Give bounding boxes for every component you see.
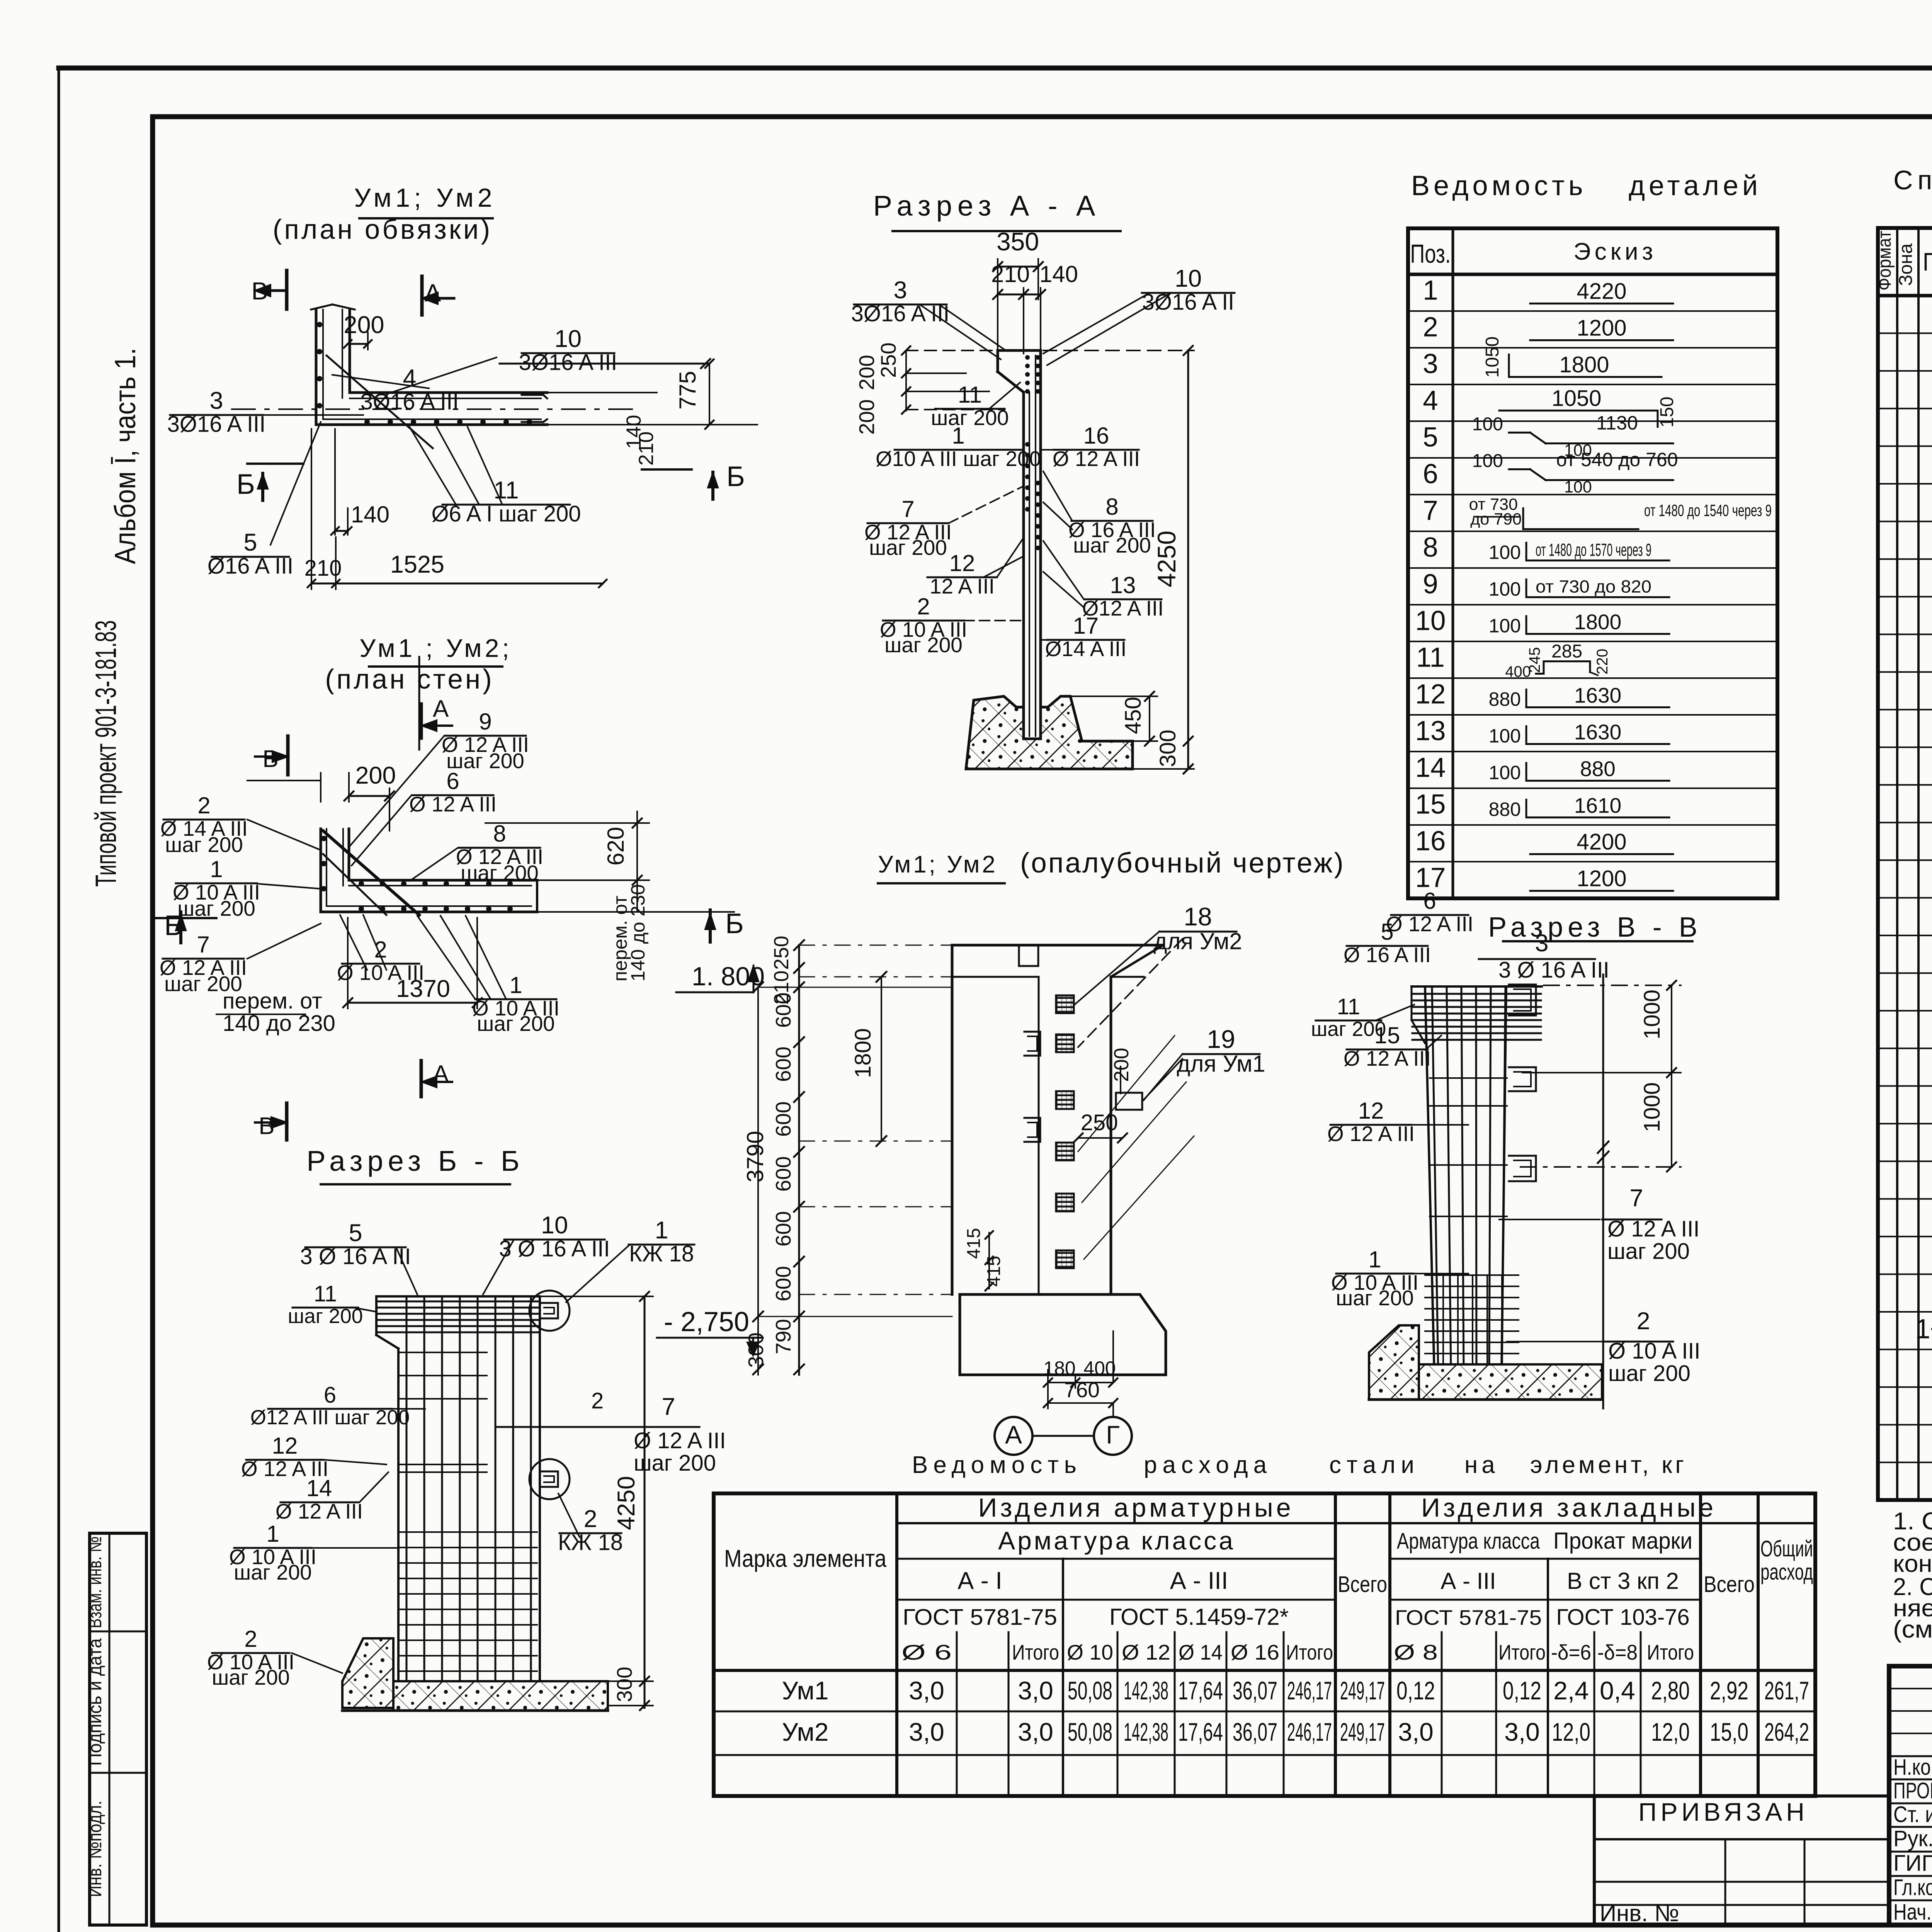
svg-text:12,0: 12,0 xyxy=(1552,1718,1590,1746)
svg-text:Б: Б xyxy=(725,908,744,939)
svg-text:142,38: 142,38 xyxy=(1124,1676,1168,1705)
svg-text:220: 220 xyxy=(1594,649,1611,675)
svg-text:285: 285 xyxy=(1551,641,1582,662)
svg-text:Ø14 A III: Ø14 A III xyxy=(1045,637,1127,661)
svg-text:3 Ø 16 A III: 3 Ø 16 A III xyxy=(499,1236,610,1262)
svg-text:Подпись и дата: Подпись и дата xyxy=(85,1638,105,1766)
svg-text:50,08: 50,08 xyxy=(1068,1718,1112,1746)
svg-text:0,12: 0,12 xyxy=(1396,1676,1435,1705)
svg-text:Ø 14: Ø 14 xyxy=(1179,1640,1223,1664)
svg-text:200: 200 xyxy=(855,399,879,435)
svg-text:775: 775 xyxy=(675,371,701,410)
svg-text:2,4: 2,4 xyxy=(1553,1676,1589,1705)
svg-text:Ø 6: Ø 6 xyxy=(901,1640,952,1664)
svg-text:шаг 200: шаг 200 xyxy=(634,1451,716,1476)
svg-text:8: 8 xyxy=(493,821,506,847)
svg-text:расход: расход xyxy=(1760,1560,1813,1585)
svg-text:3: 3 xyxy=(1535,930,1548,957)
svg-text:142,38: 142,38 xyxy=(1124,1718,1168,1746)
svg-text:Инв. №: Инв. № xyxy=(1600,1900,1679,1926)
svg-text:210: 210 xyxy=(991,261,1030,287)
svg-text:0,12: 0,12 xyxy=(1503,1676,1541,1705)
svg-text:249,17: 249,17 xyxy=(1340,1676,1385,1705)
svg-text:17,64: 17,64 xyxy=(1178,1718,1223,1746)
svg-text:Ум1 ; Ум2;: Ум1 ; Ум2; xyxy=(359,634,512,662)
svg-text:100: 100 xyxy=(1489,615,1521,637)
svg-text:5: 5 xyxy=(1381,919,1393,945)
svg-text:150: 150 xyxy=(1657,396,1677,427)
svg-text:от 730 до 820: от 730 до 820 xyxy=(1536,577,1651,597)
svg-text:3: 3 xyxy=(209,387,223,414)
svg-text:Ø 8: Ø 8 xyxy=(1394,1640,1438,1664)
svg-text:1630: 1630 xyxy=(1574,720,1621,744)
svg-text:Ø 12 A III: Ø 12 A III xyxy=(1344,1046,1431,1070)
svg-text:880: 880 xyxy=(1580,757,1616,781)
svg-text:2: 2 xyxy=(244,1626,257,1652)
svg-text:Ø 10: Ø 10 xyxy=(1067,1640,1113,1664)
svg-text:14: 14 xyxy=(306,1475,332,1501)
svg-text:36,07: 36,07 xyxy=(1233,1718,1277,1746)
svg-text:Б: Б xyxy=(726,461,745,492)
svg-text:1: 1 xyxy=(509,972,522,998)
svg-text:Ø 10 A III: Ø 10 A III xyxy=(1608,1338,1701,1364)
svg-text:3,0: 3,0 xyxy=(1018,1676,1053,1705)
svg-text:790: 790 xyxy=(771,1319,795,1354)
svg-text:Общий: Общий xyxy=(1760,1536,1813,1561)
svg-text:Арматура класса: Арматура класса xyxy=(998,1526,1235,1555)
svg-text:3: 3 xyxy=(893,277,907,304)
svg-text:600: 600 xyxy=(771,1046,795,1082)
svg-text:Ø 12: Ø 12 xyxy=(1122,1640,1170,1664)
svg-text:415: 415 xyxy=(964,1228,984,1259)
svg-text:расхода: расхода xyxy=(1144,1452,1272,1478)
svg-text:200: 200 xyxy=(855,355,879,390)
svg-text:до 790: до 790 xyxy=(1470,510,1522,529)
svg-text:350: 350 xyxy=(997,227,1039,256)
svg-text:шаг 200: шаг 200 xyxy=(931,406,1009,430)
svg-text:4250: 4250 xyxy=(613,1476,640,1530)
svg-text:17: 17 xyxy=(1073,613,1099,639)
svg-text:2: 2 xyxy=(591,1388,604,1413)
svg-text:Спецификация: Спецификация xyxy=(1893,165,1932,195)
svg-text:2,92: 2,92 xyxy=(1710,1676,1748,1705)
svg-text:Итого: Итого xyxy=(1286,1640,1333,1664)
svg-text:15,0: 15,0 xyxy=(1710,1718,1748,1746)
svg-text:Разрез А - А: Разрез А - А xyxy=(873,190,1101,222)
svg-text:3 Ø 16 A III: 3 Ø 16 A III xyxy=(300,1244,411,1269)
svg-text:-δ=6: -δ=6 xyxy=(1551,1640,1591,1664)
svg-text:6: 6 xyxy=(324,1383,336,1408)
svg-text:7: 7 xyxy=(901,496,914,522)
svg-text:Ø 12 A III: Ø 12 A III xyxy=(409,792,497,816)
svg-text:Ум1: Ум1 xyxy=(782,1676,828,1705)
svg-text:Типовой проект 901-3-181.83: Типовой проект 901-3-181.83 xyxy=(90,620,122,887)
svg-text:1: 1 xyxy=(1368,1247,1381,1272)
svg-text:А - III: А - III xyxy=(1440,1568,1496,1594)
svg-text:11: 11 xyxy=(493,477,519,504)
svg-text:2: 2 xyxy=(197,793,210,818)
svg-text:10: 10 xyxy=(541,1212,568,1239)
svg-text:Поз.: Поз. xyxy=(1410,239,1451,269)
svg-text:249,17: 249,17 xyxy=(1340,1718,1385,1746)
svg-text:от 1480 до 1540 через 9: от 1480 до 1540 через 9 xyxy=(1644,502,1772,520)
svg-text:13: 13 xyxy=(1110,572,1136,598)
svg-text:100: 100 xyxy=(1472,414,1503,435)
svg-text:3Ø16 A III: 3Ø16 A III xyxy=(519,350,617,375)
svg-text:1050: 1050 xyxy=(1551,386,1601,411)
svg-text:Прокат марки: Прокат марки xyxy=(1553,1528,1692,1554)
svg-text:от 1480 до 1570 через 9: от 1480 до 1570 через 9 xyxy=(1536,540,1651,560)
svg-text:261,7: 261,7 xyxy=(1764,1676,1809,1705)
svg-text:12,0: 12,0 xyxy=(1651,1718,1690,1746)
svg-text:140: 140 xyxy=(1039,261,1078,287)
svg-text:7: 7 xyxy=(1423,496,1438,526)
svg-text:4200: 4200 xyxy=(1577,830,1626,855)
svg-text:шаг 200: шаг 200 xyxy=(1336,1286,1414,1310)
svg-text:15: 15 xyxy=(1415,789,1446,820)
svg-text:250: 250 xyxy=(876,342,900,378)
svg-text:4220: 4220 xyxy=(1577,279,1626,304)
svg-text:на: на xyxy=(1464,1452,1499,1478)
svg-text:600: 600 xyxy=(771,1101,795,1137)
svg-text:6: 6 xyxy=(446,768,459,794)
svg-text:1: 1 xyxy=(1423,276,1438,306)
svg-text:3Ø16 A III: 3Ø16 A III xyxy=(361,389,459,415)
svg-text:Марка элемента: Марка элемента xyxy=(724,1545,887,1572)
svg-text:Нач.отд.: Нач.отд. xyxy=(1893,1900,1932,1925)
svg-text:246,17: 246,17 xyxy=(1287,1676,1332,1705)
svg-text:3,0: 3,0 xyxy=(909,1718,944,1746)
svg-text:11: 11 xyxy=(314,1281,337,1306)
svg-text:Ø 16: Ø 16 xyxy=(1231,1640,1279,1664)
svg-text:Формат: Формат xyxy=(1874,231,1895,291)
svg-text:14: 14 xyxy=(1415,753,1446,783)
svg-text:400: 400 xyxy=(1083,1357,1116,1379)
svg-text:от 540 до 760: от 540 до 760 xyxy=(1556,449,1678,471)
svg-text:1610: 1610 xyxy=(1574,794,1621,818)
svg-text:шаг 200: шаг 200 xyxy=(212,1665,290,1689)
svg-text:Инв. №подл.: Инв. №подл. xyxy=(85,1801,105,1897)
svg-text:16: 16 xyxy=(1083,423,1109,449)
svg-text:шаг 200: шаг 200 xyxy=(884,633,963,657)
svg-text:3,0: 3,0 xyxy=(1018,1718,1053,1746)
svg-text:11: 11 xyxy=(1337,994,1360,1019)
svg-text:620: 620 xyxy=(603,827,629,866)
svg-text:1: 1 xyxy=(210,856,223,882)
svg-text:Ст. инж.: Ст. инж. xyxy=(1893,1802,1932,1827)
svg-text:(план обвязки): (план обвязки) xyxy=(273,214,492,245)
svg-text:шаг 200: шаг 200 xyxy=(1608,1361,1690,1386)
svg-text:2: 2 xyxy=(917,594,930,619)
svg-text:3: 3 xyxy=(1423,349,1438,379)
svg-text:8: 8 xyxy=(1423,532,1438,563)
svg-text:Ø6 A I шаг 200: Ø6 A I шаг 200 xyxy=(432,502,581,527)
svg-text:(опалубочный чертеж): (опалубочный чертеж) xyxy=(1020,847,1345,879)
svg-text:Всего: Всего xyxy=(1704,1572,1755,1597)
svg-text:ГОСТ 103-76: ГОСТ 103-76 xyxy=(1556,1605,1689,1630)
svg-text:450: 450 xyxy=(1121,697,1146,734)
svg-text:шаг 200: шаг 200 xyxy=(477,1012,555,1036)
svg-text:200: 200 xyxy=(1110,1048,1133,1082)
svg-text:1200: 1200 xyxy=(1577,316,1626,341)
svg-text:3,0: 3,0 xyxy=(1398,1718,1434,1746)
svg-text:415: 415 xyxy=(984,1256,1004,1287)
svg-text:1130: 1130 xyxy=(1596,412,1638,434)
svg-text:100: 100 xyxy=(1564,478,1592,497)
svg-text:13: 13 xyxy=(1415,716,1446,747)
svg-text:12: 12 xyxy=(1930,825,1932,855)
svg-text:1200: 1200 xyxy=(1577,866,1626,891)
svg-text:1525: 1525 xyxy=(390,551,444,578)
svg-text:1: 1 xyxy=(952,423,964,449)
svg-text:3,0: 3,0 xyxy=(909,1676,944,1705)
svg-text:600: 600 xyxy=(771,992,795,1028)
svg-text:100: 100 xyxy=(1472,451,1503,471)
svg-text:8: 8 xyxy=(1105,494,1118,520)
svg-text:Б: Б xyxy=(236,469,255,500)
svg-text:880: 880 xyxy=(1489,799,1521,820)
svg-text:1000: 1000 xyxy=(1639,990,1665,1039)
svg-text:1800: 1800 xyxy=(850,1028,876,1078)
svg-text:18: 18 xyxy=(1930,1389,1932,1420)
svg-text:12: 12 xyxy=(949,550,975,576)
svg-text:10: 10 xyxy=(1175,265,1202,292)
svg-text:Г: Г xyxy=(1106,1420,1120,1449)
svg-text:Итого: Итого xyxy=(1647,1640,1694,1664)
svg-text:для Ум1: для Ум1 xyxy=(1177,1051,1265,1077)
svg-text:Ведомость: Ведомость xyxy=(912,1452,1082,1478)
svg-text:19: 19 xyxy=(1207,1025,1235,1053)
svg-text:36,07: 36,07 xyxy=(1233,1676,1277,1705)
svg-text:1370: 1370 xyxy=(396,975,450,1002)
svg-text:Арматура класса: Арматура класса xyxy=(1397,1529,1540,1554)
svg-text:шаг 200: шаг 200 xyxy=(869,536,947,560)
svg-text:12: 12 xyxy=(1415,679,1446,710)
svg-text:ПРОВЕР.: ПРОВЕР. xyxy=(1893,1778,1932,1803)
svg-text:300: 300 xyxy=(612,1667,636,1702)
svg-text:11: 11 xyxy=(958,382,982,408)
svg-text:шаг 200: шаг 200 xyxy=(288,1305,363,1328)
svg-text:для Ум2: для Ум2 xyxy=(1153,929,1242,954)
svg-text:шаг 200: шаг 200 xyxy=(1073,533,1151,557)
svg-text:15: 15 xyxy=(1374,1022,1400,1048)
svg-text:Зона: Зона xyxy=(1896,243,1916,286)
svg-text:КЖ 18: КЖ 18 xyxy=(558,1530,623,1555)
svg-text:перем. от: перем. от xyxy=(223,988,322,1014)
svg-text:11: 11 xyxy=(1416,643,1445,673)
svg-text:7: 7 xyxy=(1629,1185,1643,1212)
svg-text:А - I: А - I xyxy=(957,1567,1002,1594)
svg-text:50,08: 50,08 xyxy=(1068,1676,1112,1705)
svg-text:250: 250 xyxy=(770,936,793,970)
svg-text:2: 2 xyxy=(374,937,387,963)
svg-text:Итого: Итого xyxy=(1498,1640,1546,1664)
svg-text:2,80: 2,80 xyxy=(1651,1676,1690,1705)
svg-text:210: 210 xyxy=(635,432,658,466)
svg-text:140: 140 xyxy=(351,502,389,527)
svg-text:6: 6 xyxy=(1423,459,1438,490)
svg-text:Ум1; Ум2: Ум1; Ум2 xyxy=(878,851,998,878)
svg-text:шаг 200: шаг 200 xyxy=(234,1560,312,1584)
svg-text:Ø 16 A III: Ø 16 A III xyxy=(1344,943,1431,967)
svg-text:1800: 1800 xyxy=(1559,352,1609,378)
svg-text:Ø16 A III: Ø16 A III xyxy=(207,554,293,579)
svg-text:шаг 200: шаг 200 xyxy=(1607,1239,1690,1264)
svg-text:1050: 1050 xyxy=(1482,337,1503,378)
svg-text:шаг 200: шаг 200 xyxy=(177,896,255,920)
svg-text:600: 600 xyxy=(771,1266,795,1301)
svg-text:Гл.конст.: Гл.конст. xyxy=(1893,1875,1932,1900)
svg-text:Поз.: Поз. xyxy=(1923,247,1932,276)
svg-text:Ум2: Ум2 xyxy=(782,1718,828,1746)
svg-text:0,4: 0,4 xyxy=(1600,1676,1635,1705)
svg-text:9: 9 xyxy=(479,709,492,735)
svg-text:деталей: деталей xyxy=(1629,170,1762,201)
svg-text:1800: 1800 xyxy=(1574,610,1621,634)
svg-text:А: А xyxy=(1005,1420,1022,1449)
svg-text:180: 180 xyxy=(1043,1357,1075,1379)
svg-text:ГИП: ГИП xyxy=(1893,1851,1932,1876)
svg-text:2: 2 xyxy=(583,1505,597,1532)
svg-text:(см. 3.900-3 вып. 2 п.7).: (см. 3.900-3 вып. 2 п.7). xyxy=(1893,1616,1932,1643)
svg-text:250: 250 xyxy=(1081,1110,1118,1135)
svg-text:1: 1 xyxy=(266,1521,279,1547)
svg-text:100: 100 xyxy=(1489,762,1521,784)
svg-text:18: 18 xyxy=(1184,902,1212,931)
svg-text:А - III: А - III xyxy=(1170,1567,1228,1594)
svg-text:Н.контр.: Н.контр. xyxy=(1893,1755,1932,1780)
svg-text:Ø 12 A III: Ø 12 A III xyxy=(276,1499,363,1523)
svg-text:5: 5 xyxy=(349,1219,362,1247)
svg-text:4: 4 xyxy=(1423,386,1438,416)
svg-text:100: 100 xyxy=(1489,578,1521,600)
svg-text:-δ=8: -δ=8 xyxy=(1597,1640,1638,1664)
svg-text:3,0: 3,0 xyxy=(1504,1718,1540,1746)
svg-text:300: 300 xyxy=(1155,730,1180,767)
svg-text:Разрез В - В: Разрез В - В xyxy=(1488,912,1702,943)
svg-text:Рук. гр.: Рук. гр. xyxy=(1893,1826,1932,1851)
svg-text:- 2,750: - 2,750 xyxy=(664,1307,749,1337)
svg-text:стали: стали xyxy=(1329,1452,1420,1478)
svg-text:200: 200 xyxy=(355,762,396,789)
svg-text:элемент, кг: элемент, кг xyxy=(1530,1452,1687,1478)
svg-text:Ум1; Ум2: Ум1; Ум2 xyxy=(354,183,496,213)
svg-text:19: 19 xyxy=(1930,1088,1932,1119)
svg-text:16: 16 xyxy=(1930,975,1932,1006)
svg-text:ГОСТ 5.1459-72*: ГОСТ 5.1459-72* xyxy=(1109,1604,1289,1630)
svg-text:Эскиз: Эскиз xyxy=(1573,238,1657,265)
svg-text:246,17: 246,17 xyxy=(1287,1718,1332,1746)
svg-text:6: 6 xyxy=(1423,888,1436,914)
svg-text:264,2: 264,2 xyxy=(1764,1718,1809,1746)
svg-text:5: 5 xyxy=(1423,422,1438,453)
svg-text:А: А xyxy=(433,696,449,722)
svg-text:12: 12 xyxy=(272,1433,298,1459)
svg-text:1÷17: 1÷17 xyxy=(1915,1314,1932,1345)
svg-text:5: 5 xyxy=(243,529,257,556)
svg-text:9: 9 xyxy=(1423,569,1438,600)
svg-text:ГОСТ 5781-75: ГОСТ 5781-75 xyxy=(903,1605,1057,1630)
svg-text:Взам. инв. №: Взам. инв. № xyxy=(85,1536,105,1628)
svg-text:140 до 230: 140 до 230 xyxy=(627,884,649,981)
svg-text:ПРИВЯЗАН: ПРИВЯЗАН xyxy=(1638,1798,1808,1826)
svg-text:КЖ 18: КЖ 18 xyxy=(629,1242,694,1267)
svg-text:2: 2 xyxy=(1636,1308,1650,1335)
svg-text:Альбом Ī, часть 1.: Альбом Ī, часть 1. xyxy=(109,348,142,564)
svg-text:17: 17 xyxy=(1930,1013,1932,1043)
svg-text:7: 7 xyxy=(662,1393,675,1420)
svg-text:(план стен): (план стен) xyxy=(325,664,494,695)
svg-text:В ст 3 кп 2: В ст 3 кп 2 xyxy=(1567,1568,1679,1594)
svg-text:Ø 12 A III: Ø 12 A III xyxy=(634,1428,726,1453)
svg-text:10: 10 xyxy=(554,325,582,352)
svg-text:ГОСТ 5781-75: ГОСТ 5781-75 xyxy=(1395,1605,1542,1629)
svg-text:4250: 4250 xyxy=(1152,531,1181,587)
svg-text:13: 13 xyxy=(1930,862,1932,893)
svg-text:12: 12 xyxy=(1358,1098,1384,1124)
svg-text:4: 4 xyxy=(403,365,416,392)
svg-text:3790: 3790 xyxy=(742,1131,768,1182)
svg-text:Итого: Итого xyxy=(1012,1640,1059,1664)
svg-text:760: 760 xyxy=(1064,1378,1100,1402)
svg-text:10: 10 xyxy=(1415,606,1446,636)
svg-text:7: 7 xyxy=(197,932,209,957)
svg-text:600: 600 xyxy=(771,1156,795,1192)
svg-text:Ø 12 A III: Ø 12 A III xyxy=(1386,912,1473,936)
svg-text:600: 600 xyxy=(771,1211,795,1247)
svg-text:12 A III: 12 A III xyxy=(930,574,995,598)
svg-text:3 Ø 16 A III: 3 Ø 16 A III xyxy=(1498,957,1609,983)
svg-text:1000: 1000 xyxy=(1639,1082,1665,1132)
svg-text:400: 400 xyxy=(1505,663,1531,680)
svg-text:Ø12 A III шаг 200: Ø12 A III шаг 200 xyxy=(250,1406,410,1429)
svg-text:10: 10 xyxy=(1930,750,1932,780)
svg-text:1630: 1630 xyxy=(1574,684,1621,707)
svg-text:14: 14 xyxy=(1930,900,1932,930)
svg-text:100: 100 xyxy=(1489,542,1521,563)
svg-text:шаг 200: шаг 200 xyxy=(461,861,539,885)
svg-text:Ø 12 A III: Ø 12 A III xyxy=(1327,1122,1415,1146)
svg-text:Разрез Б - Б: Разрез Б - Б xyxy=(306,1145,524,1177)
svg-text:Ведомость: Ведомость xyxy=(1411,170,1587,201)
svg-text:16: 16 xyxy=(1415,826,1446,857)
svg-text:880: 880 xyxy=(1489,689,1521,710)
svg-text:Изделия закладные: Изделия закладные xyxy=(1421,1493,1716,1522)
svg-text:шаг 200: шаг 200 xyxy=(165,833,243,857)
svg-text:Ø 12 A III: Ø 12 A III xyxy=(1607,1216,1700,1242)
svg-text:Изделия арматурные: Изделия арматурные xyxy=(978,1493,1294,1522)
svg-text:17,64: 17,64 xyxy=(1178,1676,1223,1705)
svg-text:2: 2 xyxy=(1423,312,1438,343)
svg-text:1: 1 xyxy=(655,1217,668,1244)
svg-text:Всего: Всего xyxy=(1338,1572,1387,1597)
svg-text:15: 15 xyxy=(1930,938,1932,968)
svg-text:100: 100 xyxy=(1489,725,1521,747)
